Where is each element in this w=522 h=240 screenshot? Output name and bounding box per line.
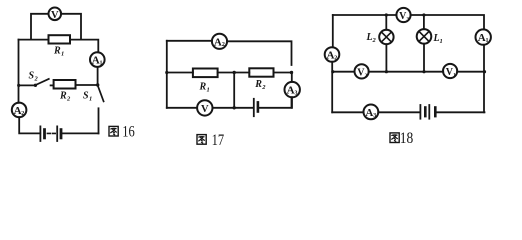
svg-text:1: 1 bbox=[100, 61, 103, 67]
svg-text:2: 2 bbox=[66, 95, 71, 102]
node center junction between R1 and R2 bbox=[233, 71, 236, 74]
svg-text:1: 1 bbox=[207, 86, 210, 93]
wire middle branch from left wire to S2 bbox=[19, 84, 36, 86]
wire R2 to right junction bbox=[76, 84, 98, 86]
resistor R1 bbox=[49, 35, 71, 43]
svg-text:2: 2 bbox=[334, 55, 337, 61]
wire V3 to top-right corner bbox=[411, 15, 484, 30]
svg-text:3: 3 bbox=[373, 113, 376, 119]
svg-text:2: 2 bbox=[222, 42, 225, 48]
battery cell 1 short plate (fig18) bbox=[424, 108, 427, 117]
voltmeter V (fig17) bbox=[197, 100, 212, 115]
resistor R2 (fig17) bbox=[249, 68, 273, 76]
svg-text:V: V bbox=[51, 10, 59, 21]
battery cell 1 short plate bbox=[43, 130, 46, 138]
wire A2 down to middle wire junction and bottom-left corner bbox=[331, 62, 333, 113]
wire lamp L1 bottom lead bbox=[423, 44, 425, 72]
wire voltmeter branch right stub bbox=[61, 14, 81, 40]
lamp L1 bbox=[417, 29, 432, 44]
svg-text:3: 3 bbox=[295, 91, 298, 97]
lamp L2 bbox=[379, 30, 393, 44]
svg-text:R: R bbox=[254, 79, 262, 90]
wire battery to bottom-right corner bbox=[260, 97, 292, 108]
battery cell 2 long plate (fig18) bbox=[428, 105, 430, 119]
svg-text:2: 2 bbox=[34, 76, 39, 83]
ammeter A2 bbox=[12, 103, 27, 118]
wire bottom-left corner to A3 bbox=[332, 111, 363, 113]
wire top from left corner to A2 bbox=[167, 40, 212, 42]
svg-text:2: 2 bbox=[372, 37, 377, 44]
figure label 图18 bbox=[390, 133, 399, 143]
wire S2 to R2 bbox=[51, 84, 54, 86]
battery cell 2 short plate bbox=[60, 130, 63, 138]
wire A2 to top-right corner down to R2-branch junction bbox=[227, 41, 291, 65]
node lamp L1 top junction bbox=[422, 13, 425, 16]
node junction of R2 branch and S1 bbox=[96, 83, 99, 86]
svg-text:1: 1 bbox=[440, 38, 443, 45]
wire R2 to right junction bbox=[274, 72, 292, 74]
resistor R1 (fig17) bbox=[193, 69, 218, 78]
ammeter A1 bbox=[90, 52, 105, 67]
svg-text:R: R bbox=[59, 90, 67, 101]
wire lamp L1 top lead bbox=[423, 15, 425, 29]
wire A3 to battery bbox=[378, 111, 420, 113]
node junction left wire and R2 branch bbox=[17, 84, 20, 87]
node middle wire right junction bbox=[483, 70, 486, 73]
wire junction down to A1 bbox=[291, 73, 293, 82]
node lamp L2 bottom junction bbox=[385, 70, 388, 73]
wire A1 down right vertical to bottom-right corner bbox=[483, 45, 485, 113]
svg-text:2: 2 bbox=[21, 111, 24, 117]
resistor R2 bbox=[54, 80, 76, 89]
wire left vertical top segment to A2 bbox=[332, 15, 334, 47]
svg-text:R: R bbox=[199, 81, 207, 92]
wire left vertical bbox=[166, 41, 168, 108]
svg-text:1: 1 bbox=[486, 38, 489, 44]
wire dashed between battery cells bbox=[47, 132, 55, 134]
battery cell 1 long plate (fig18) bbox=[419, 105, 421, 119]
wire lamp L2 bottom lead bbox=[385, 44, 387, 71]
svg-text:R: R bbox=[53, 46, 61, 57]
svg-text:A: A bbox=[287, 85, 295, 97]
wire V to battery bbox=[213, 107, 254, 109]
wire middle from left junction to V2 bbox=[333, 71, 355, 73]
wire voltmeter branch left stub bbox=[31, 14, 48, 40]
wire A1 bottom to S1 junction bbox=[97, 67, 99, 85]
svg-text:2: 2 bbox=[261, 84, 266, 91]
ammeter A2 (fig18) bbox=[325, 47, 340, 62]
battery cell 2 long plate bbox=[56, 126, 58, 141]
wire R1 to center junction bbox=[218, 72, 250, 74]
svg-text:1: 1 bbox=[89, 96, 92, 103]
wire lamp L2 top lead bbox=[385, 15, 387, 30]
node middle branch left end bbox=[165, 71, 168, 74]
wire V1 to right vertical bbox=[457, 71, 484, 73]
wire battery to bottom-right corner bbox=[437, 111, 485, 113]
wire battery to bottom-right corner bbox=[63, 132, 99, 134]
switch S2 lever bbox=[36, 79, 49, 85]
svg-text:A: A bbox=[214, 36, 222, 48]
voltmeter V3 bbox=[396, 8, 410, 22]
wire A2 bottom to bottom-left corner bbox=[19, 117, 40, 133]
svg-text:1: 1 bbox=[61, 51, 64, 58]
switch S2 contact dot bbox=[34, 84, 37, 87]
node center-branch bottom junction bbox=[233, 106, 236, 109]
ammeter A1 (fig18) bbox=[476, 29, 491, 44]
figure label 图17 bbox=[197, 135, 206, 145]
ammeter A1 (fig17) bbox=[285, 82, 300, 97]
voltmeter V bbox=[49, 8, 62, 21]
voltmeter V1 bbox=[443, 64, 457, 78]
svg-text:V: V bbox=[201, 104, 209, 115]
battery cell 2 short plate (fig18) bbox=[434, 108, 437, 117]
battery short plate (fig17) bbox=[257, 102, 260, 111]
battery cell 1 long plate bbox=[39, 126, 41, 141]
switch S1 lever bbox=[98, 86, 104, 101]
wire R1 right to top-right corner down to A1 bbox=[70, 40, 98, 53]
svg-text:18: 18 bbox=[400, 130, 414, 147]
wire center branch vertical bbox=[233, 73, 235, 108]
battery long plate (fig17) bbox=[253, 99, 255, 116]
node lamp L2 top junction bbox=[385, 13, 388, 16]
voltmeter V2 bbox=[355, 64, 369, 78]
node right junction bbox=[290, 71, 293, 74]
wire A1 down to bottom-right corner bbox=[291, 97, 293, 108]
svg-text:17: 17 bbox=[212, 132, 225, 149]
wire top from left corner to V3 bbox=[333, 14, 397, 16]
wire left vertical from top-left corner down to A2 bbox=[18, 40, 20, 103]
ammeter A2 (fig17) bbox=[212, 34, 227, 49]
wire middle branch left to R1 bbox=[167, 72, 193, 74]
ammeter A3 (fig18 bottom) bbox=[364, 105, 379, 120]
node lamp L1 bottom junction bbox=[422, 70, 425, 73]
figure label 图16 bbox=[109, 126, 118, 136]
wire top-left segment to R1 bbox=[19, 39, 49, 41]
wire bottom-left corner to V bbox=[167, 107, 197, 109]
node middle wire left junction bbox=[331, 70, 334, 73]
svg-text:16: 16 bbox=[122, 124, 135, 141]
wire V2 to V1 bbox=[369, 71, 444, 73]
wire S1 lower contact down to bottom-right corner bbox=[98, 108, 100, 133]
